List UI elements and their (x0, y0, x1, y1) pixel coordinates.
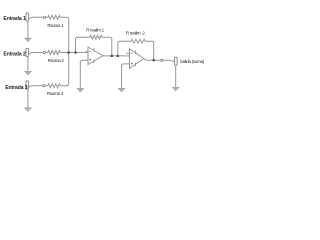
wire U2 inverting stub (126, 52, 129, 54)
node ring row2 (43, 51, 45, 53)
resistor Rsuma 3 (48, 84, 61, 88)
junction feedback1 tap (74, 51, 76, 53)
node ring output (161, 59, 163, 61)
svg-text:Rsuma 1: Rsuma 1 (47, 23, 64, 28)
wire U1 inverting stub (86, 51, 88, 53)
wire feedback R realim 1 left leg (76, 37, 91, 52)
junction R realim 1 output (111, 55, 113, 57)
svg-text:Rsuma 2: Rsuma 2 (48, 58, 65, 63)
junction summing bus (68, 51, 70, 53)
op-amp U1 plus mark (89, 59, 91, 61)
connector Entrada 3 (26, 81, 29, 89)
op-amp U2 power stubs (135, 51, 137, 67)
svg-text:Salida (suma): Salida (suma) (180, 59, 205, 64)
svg-text:Rsuma 3: Rsuma 3 (47, 91, 64, 96)
wire row3 left (28, 86, 47, 87)
op-amp U2 minus mark (131, 52, 133, 54)
ground below Entrada 2 (24, 72, 31, 75)
wire U1 non-inverting input to ground (80, 60, 88, 88)
resistor R realim 2 (131, 39, 145, 43)
connector Entrada 2 (26, 48, 29, 56)
wire U2 non-inverting input to ground (122, 64, 130, 88)
ground U2 non-inverting (118, 88, 125, 91)
wire feedback R realim 1 right leg (102, 37, 112, 56)
svg-text:Entrada 3: Entrada 3 (5, 85, 28, 91)
junction R realim 2 input (117, 55, 119, 57)
junction output node (153, 59, 155, 61)
wire U1 output to U2 (103, 55, 130, 57)
resistor R realim 1 (90, 35, 102, 39)
wire row2 left (28, 53, 47, 54)
svg-text:R realim. 2: R realim. 2 (126, 30, 145, 35)
op-amp U1 power stubs (93, 48, 95, 63)
node ring row1 (43, 16, 45, 18)
op-amp U2 plus mark (131, 63, 133, 65)
svg-text:R realim 1: R realim 1 (86, 28, 104, 33)
wire Entrada 1 connector to ground (27, 21, 29, 38)
wire Salida connector to ground (175, 65, 177, 87)
wire summing node to op-amp U1 (60, 52, 88, 54)
wire U2 output to Salida (144, 59, 175, 62)
op-amp U1 minus mark (89, 51, 91, 53)
svg-text:Entrada 2: Entrada 2 (3, 52, 26, 58)
op-amp U2 (130, 49, 144, 69)
wire feedback R realim 2 left leg (118, 41, 131, 56)
svg-text:Entrada 1: Entrada 1 (3, 16, 26, 22)
resistor Rsuma 2 (48, 51, 61, 55)
wire Entrada 2 connector to ground (27, 57, 29, 71)
ground below Entrada 3 (24, 108, 31, 111)
ground U1 non-inverting (77, 89, 84, 92)
op-amp U1 (88, 47, 103, 65)
wire Entrada 3 connector to ground (27, 89, 29, 107)
node ring row3 (43, 85, 45, 87)
wire row1 left (28, 17, 47, 18)
connector Salida (174, 57, 177, 65)
wire row1 right + vertical bus + row3 corner (60, 17, 68, 85)
ground below Salida (172, 87, 179, 90)
resistor Rsuma 1 (48, 15, 61, 19)
ground below Entrada 1 (24, 38, 31, 41)
connector Entrada 1 (26, 13, 29, 21)
wire feedback R realim 2 right leg (145, 41, 154, 60)
